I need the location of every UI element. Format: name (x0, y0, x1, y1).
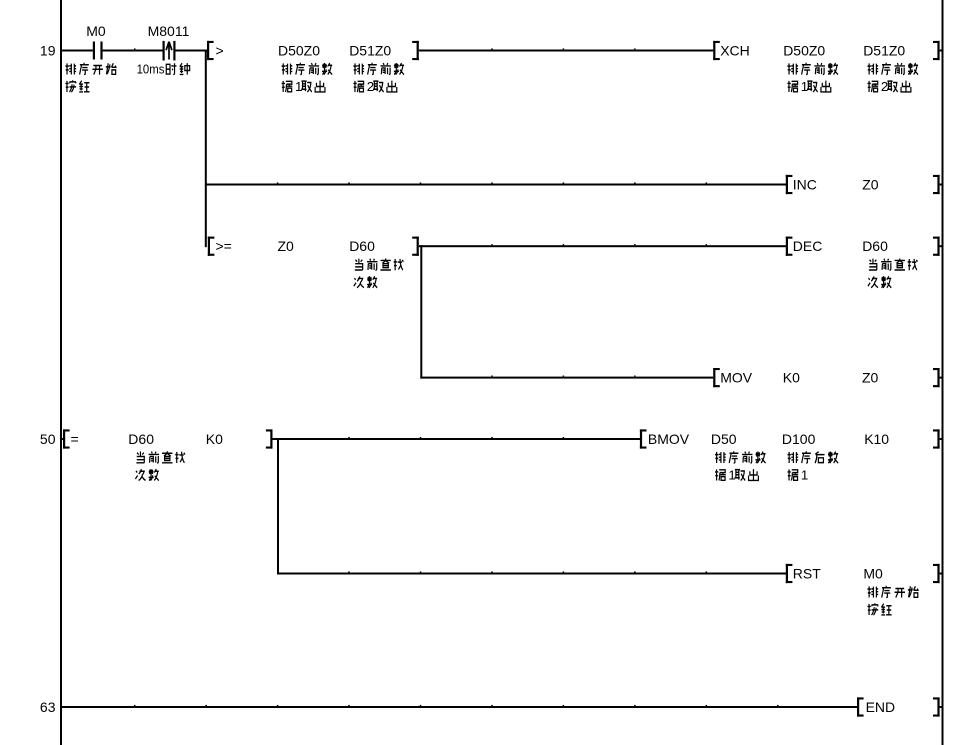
svg-text:>: > (216, 43, 224, 59)
svg-text:INC: INC (793, 177, 817, 193)
svg-text:D51Z0: D51Z0 (349, 43, 391, 59)
svg-text:Z0: Z0 (862, 370, 879, 386)
svg-text:1: 1 (801, 79, 808, 94)
svg-text:19: 19 (40, 43, 56, 59)
svg-text:>=: >= (216, 238, 232, 254)
svg-text:D50Z0: D50Z0 (783, 43, 825, 59)
svg-text:2: 2 (367, 79, 374, 94)
svg-text:BMOV: BMOV (648, 431, 690, 447)
svg-text:1: 1 (295, 79, 302, 94)
svg-text:D100: D100 (782, 431, 816, 447)
svg-text:D60: D60 (349, 238, 375, 254)
svg-text:K0: K0 (206, 431, 223, 447)
svg-text:K10: K10 (864, 431, 889, 447)
svg-text:D60: D60 (862, 238, 888, 254)
svg-text:Z0: Z0 (862, 177, 879, 193)
svg-text:M8011: M8011 (148, 23, 190, 39)
svg-text:D60: D60 (128, 431, 154, 447)
svg-text:K0: K0 (783, 370, 800, 386)
svg-text:M0: M0 (863, 566, 883, 582)
svg-text:RST: RST (793, 566, 821, 582)
svg-text:MOV: MOV (720, 370, 753, 386)
svg-text:Z0: Z0 (278, 238, 295, 254)
svg-text:=: = (71, 431, 79, 447)
svg-text:D51Z0: D51Z0 (863, 43, 905, 59)
svg-text:50: 50 (40, 431, 56, 447)
svg-text:DEC: DEC (793, 238, 823, 254)
svg-text:XCH: XCH (720, 43, 750, 59)
svg-text:1: 1 (728, 468, 735, 483)
svg-text:10ms: 10ms (137, 62, 165, 77)
svg-text:D50: D50 (711, 431, 737, 447)
svg-text:1: 1 (801, 468, 808, 483)
svg-text:D50Z0: D50Z0 (278, 43, 320, 59)
svg-text:63: 63 (40, 699, 56, 715)
svg-text:M0: M0 (86, 23, 106, 39)
svg-text:END: END (866, 699, 896, 715)
svg-text:2: 2 (881, 79, 888, 94)
